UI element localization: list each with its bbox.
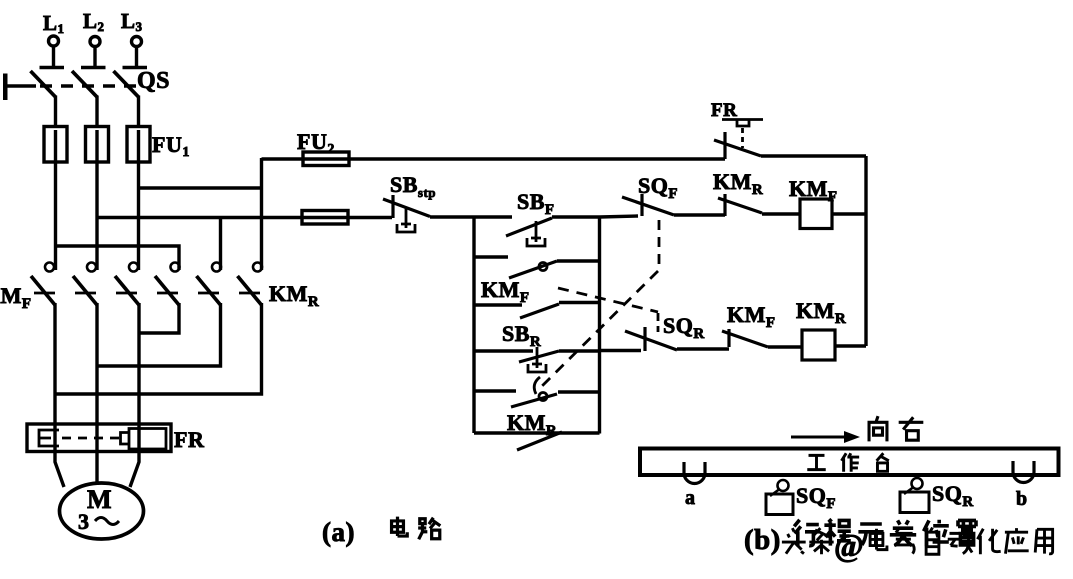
svg-text:FU2: FU2 (297, 129, 335, 157)
contact SQF NO blade (517, 432, 562, 450)
node ladder left rail (472, 217, 475, 433)
contact KMR NC (interlock) (718, 194, 762, 216)
thermal relay FR right element (129, 429, 166, 450)
terminal L2 (83, 9, 105, 47)
svg-text:SQR: SQR (663, 313, 705, 342)
contactor KMR main contact 4 (155, 263, 180, 306)
wire tap phase C to control (node) (139, 186, 262, 189)
wire phase C above fuse (137, 96, 140, 128)
svg-text:L2: L2 (83, 9, 105, 34)
wire L3 stem (135, 47, 138, 66)
limit switch SQF roller (766, 480, 793, 515)
arrow right (791, 436, 846, 439)
wire SBF to SQF (552, 216, 638, 217)
thermal relay FR left element (39, 430, 59, 446)
dog a (684, 462, 705, 484)
contactor KMR main contact 5 (197, 263, 222, 306)
svg-text:(b): (b) (744, 524, 781, 556)
linkage curl (534, 377, 540, 394)
wire SBR to rail (559, 349, 600, 352)
wire contact 4 crossover to phase C (139, 303, 179, 333)
wire drop to KMR contact 5 (219, 218, 222, 271)
svg-text:KMR: KMR (796, 298, 846, 327)
wire phase A fuse to contact (54, 130, 57, 270)
switch QS pole 3 fixed bar (123, 66, 148, 69)
wire phase A above fuse (54, 96, 57, 128)
switch QS pole 1 fixed bar (40, 66, 65, 69)
wire L1 stem (52, 47, 55, 67)
svg-text:SBR: SBR (502, 321, 541, 350)
limit switch SQF (NC) (622, 194, 674, 216)
arrow head (844, 431, 860, 443)
svg-text:(a): (a) (322, 517, 355, 547)
terminal L3 (121, 9, 143, 47)
coil KMR (802, 330, 835, 360)
motor M (60, 483, 144, 539)
limit switch SQR roller (900, 478, 929, 513)
worktable rect (640, 449, 1059, 476)
wire KMR NC to KMF coil (762, 212, 800, 215)
wire tap phase B to control (97, 216, 392, 219)
contact KMR aux stub (474, 389, 516, 392)
contactor KMF main contact 2 (73, 263, 97, 306)
wire SQR to KMF NC (677, 347, 729, 350)
pushbutton SBR stub (474, 349, 533, 352)
fuse FU1 element 3 (127, 127, 150, 163)
wire SQF to KMR NC (674, 213, 725, 216)
thermal relay FR heater box (27, 424, 171, 452)
linkage SQF dashed diagonal to SQF NO (537, 271, 658, 391)
wire tap phase A to KMR contact 4 (56, 246, 180, 270)
svg-text:SQF: SQF (796, 483, 836, 512)
switch QS pole 2 fixed bar (81, 66, 106, 69)
svg-text:KMR: KMR (507, 410, 557, 439)
svg-text:FR: FR (174, 427, 205, 452)
svg-text:L3: L3 (121, 9, 143, 34)
linkage SQR dashed vertical (657, 313, 660, 332)
svg-text:FU1: FU1 (152, 132, 190, 160)
wire L2 stem (93, 47, 96, 66)
svg-text:L1: L1 (43, 11, 65, 36)
wire KMF NC to KMR coil (768, 345, 802, 348)
svg-text:@: @ (834, 527, 864, 563)
wire right rail (864, 156, 867, 346)
wire phase A output (55, 303, 64, 487)
caption overlapped glyphs (794, 519, 976, 546)
coil KMF (800, 199, 832, 229)
contact SQF NO bottom wire (474, 431, 600, 434)
switch QS pole 1 blade (31, 71, 56, 97)
contact SQR NO blade (520, 304, 559, 318)
fuse FU1 element 1 (44, 127, 67, 163)
svg-text:M: M (87, 485, 112, 514)
linkage dashed KM contacts (34, 292, 268, 295)
svg-text:SQF: SQF (638, 173, 678, 202)
dog b (1013, 461, 1034, 483)
wire KMR coil to rail (835, 344, 866, 347)
fuse FU1 element 2 (86, 127, 109, 163)
switch QS pole 3 blade (114, 71, 139, 97)
switch QS linkage dashed (40, 84, 140, 87)
wire KMF coil to rail (832, 212, 866, 215)
contact FR NC (overload) (714, 120, 763, 160)
pushbutton SBF (NO start fwd) (506, 218, 552, 246)
pushbutton SBR (NO start rev) (519, 347, 559, 372)
svg-text:KMF: KMF (0, 283, 32, 312)
contact KMR aux (NO self-lock) (511, 393, 557, 408)
contact KMF NC (interlock) (722, 329, 768, 347)
contact KMF aux (NO self-lock) (509, 261, 557, 278)
label 向右 (869, 416, 923, 441)
contactor KMF main contact 1 (31, 263, 55, 306)
contact KMF aux stub (474, 255, 508, 258)
limit switch SQR (NC) (625, 327, 677, 351)
wire KMF aux to rail (557, 259, 600, 262)
pushbutton SBstp (NC stop) (383, 195, 430, 232)
wire FR to right rail (761, 154, 866, 157)
contact SQR NO stub (474, 303, 522, 306)
svg-text:KMR: KMR (713, 169, 763, 198)
linkage SQF dashed vertical (658, 220, 661, 269)
svg-text:KMR: KMR (269, 281, 319, 310)
wire phase B fuse to contact (95, 130, 98, 270)
wire KMR aux to rail (558, 390, 600, 393)
svg-text:3: 3 (78, 509, 90, 534)
switch QS pole 2 blade (72, 71, 97, 97)
node ladder right rail (598, 217, 601, 434)
wire rail row2 to SQR NC (600, 349, 642, 352)
fuse FU2 element 1 (303, 152, 349, 166)
wire phase C fuse to contact (137, 130, 140, 270)
wire contact 5 crossover to phase B (97, 303, 221, 366)
wire SBstp to SBF (430, 215, 512, 218)
linkage SQR dashed diagonal from SQR NO (558, 288, 658, 312)
switch QS handle (3, 74, 8, 101)
label 工作台 (807, 453, 889, 471)
svg-text:a: a (685, 487, 696, 509)
svg-text:FR: FR (711, 100, 737, 121)
svg-text:QS: QS (137, 68, 170, 94)
wire contact 6 crossover to phase A (55, 303, 262, 394)
thermal relay FR dashed link (62, 437, 119, 440)
terminal L1 (43, 11, 65, 46)
wire SQR NO to rail (559, 301, 600, 304)
watermark 头条@电气自动化应用 (782, 527, 1053, 563)
svg-text:KMF: KMF (727, 302, 776, 331)
wire vertical phase C branch to KMR contact 6 (260, 158, 263, 270)
caption 电路 glyphs (392, 517, 441, 540)
contactor KMR main contact 6 (238, 263, 263, 306)
svg-text:b: b (1016, 488, 1028, 510)
wire phase C output (130, 303, 139, 487)
svg-text:SQR: SQR (932, 481, 974, 510)
wire control top from node to fuse (262, 157, 726, 160)
svg-text:SBstp: SBstp (390, 172, 436, 200)
wire phase B above fuse (95, 96, 98, 128)
svg-text:SBF: SBF (517, 189, 555, 218)
contactor KMF main contact 3 (115, 263, 139, 306)
fuse FU2 element 2 (302, 211, 348, 225)
svg-text:KMF: KMF (789, 176, 838, 205)
wire phase B output (95, 303, 98, 485)
svg-text:KMF: KMF (481, 277, 530, 306)
switch QS linkage solid (8, 84, 37, 87)
